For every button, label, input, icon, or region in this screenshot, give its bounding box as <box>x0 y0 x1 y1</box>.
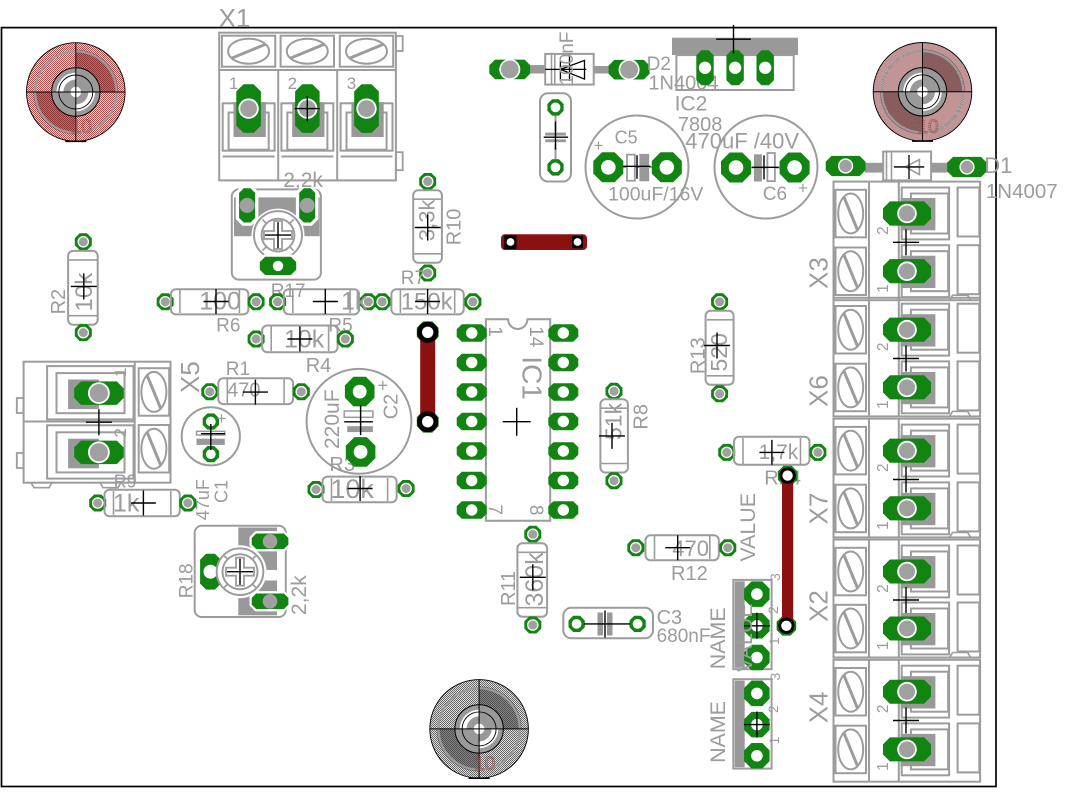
svg-text:2: 2 <box>875 226 892 235</box>
IC1 pin 11 (right) <box>548 413 578 430</box>
capacitor C7 (100nF) <box>540 93 571 181</box>
R17 value label 2,2k <box>283 169 323 192</box>
X3 pin numbers <box>875 226 892 292</box>
svg-text:X1: X1 <box>219 3 251 33</box>
D1 labels <box>984 153 1057 203</box>
svg-text:R18: R18 <box>177 563 198 598</box>
svg-text:2,2k: 2,2k <box>283 169 323 192</box>
svg-text:X4: X4 <box>804 691 834 723</box>
svg-text:100uF/16V: 100uF/16V <box>608 184 703 206</box>
svg-text:1: 1 <box>766 737 782 745</box>
X5 pin numbers <box>111 368 130 438</box>
R5 name label <box>328 316 352 337</box>
R11 name label <box>498 571 520 606</box>
capacitor C3 (680nF) <box>563 608 653 639</box>
R6 name label <box>216 316 240 337</box>
resistor R2 (10k) <box>68 233 98 341</box>
svg-text:X7: X7 <box>804 493 834 525</box>
svg-text:1: 1 <box>875 641 892 650</box>
svg-text:+: + <box>798 179 808 198</box>
SV1 pin numbers <box>765 573 783 645</box>
X4 pad 2 <box>883 680 931 704</box>
svg-text:X2: X2 <box>804 590 834 622</box>
mounting hole bottom <box>430 680 529 779</box>
svg-text:100nF: 100nF <box>557 32 578 86</box>
X1 pad 1 <box>236 84 261 133</box>
R12 name label <box>671 563 708 585</box>
svg-text:1k: 1k <box>341 288 368 316</box>
svg-text:2: 2 <box>875 342 892 351</box>
X6 pad 2 <box>883 318 931 342</box>
D2 labels <box>647 54 719 94</box>
svg-text:R12: R12 <box>671 563 708 585</box>
mounting hole top-left <box>27 43 126 142</box>
diode D1 (1N4007) <box>826 152 987 181</box>
svg-text:R6: R6 <box>216 316 240 337</box>
R1 name label <box>226 359 250 380</box>
X3 pad 1 <box>883 229 931 283</box>
svg-text:C1: C1 <box>211 480 231 503</box>
IC1 pin 4 (left) <box>457 413 487 430</box>
svg-text:C5: C5 <box>615 128 638 148</box>
R3 name label <box>329 454 355 476</box>
svg-text:680nF: 680nF <box>657 626 711 647</box>
trimmer R18 (2,2k) <box>195 526 291 617</box>
capacitor C6 (470uF/40V) <box>715 116 818 219</box>
X6 name label <box>804 375 834 407</box>
connector X4 <box>834 660 981 782</box>
IC1 pin 6 (left) <box>457 472 487 489</box>
R7 name label <box>401 268 425 289</box>
svg-text:2: 2 <box>765 705 781 713</box>
X4 name label <box>804 691 834 723</box>
svg-text:R1: R1 <box>226 359 250 380</box>
connector X3 <box>834 182 981 301</box>
X1 pin numbers <box>229 74 356 93</box>
svg-text:2: 2 <box>288 74 297 93</box>
resistor R8 (51k) <box>599 383 628 489</box>
SV2 value label <box>733 603 757 672</box>
svg-text:+: + <box>217 409 227 428</box>
svg-text:R4: R4 <box>306 355 332 377</box>
wire trace T2 (left of IC1) <box>417 321 439 432</box>
R18 name label <box>177 563 198 598</box>
svg-text:520: 520 <box>706 333 732 371</box>
svg-text:1N4007: 1N4007 <box>986 180 1058 203</box>
SV1 value label <box>736 493 760 562</box>
resistor R9 (1k) <box>89 490 196 518</box>
X5 name label <box>175 361 205 393</box>
resistor R10 (3,3k) <box>413 173 442 282</box>
svg-text:3: 3 <box>767 673 783 681</box>
svg-text:14: 14 <box>525 326 546 348</box>
svg-text:470uF /40V: 470uF /40V <box>685 128 799 153</box>
R8 name label <box>630 404 652 430</box>
C1 labels <box>193 479 232 520</box>
IC1 pin 7 (left) <box>457 501 487 519</box>
svg-text:X6: X6 <box>804 375 834 407</box>
IC1 pin 2 (left) <box>457 354 487 371</box>
svg-text:8: 8 <box>525 505 546 516</box>
resistor R1 (470) <box>201 378 309 404</box>
X3 name label <box>804 257 834 289</box>
wire trace T1 (top jumper) <box>501 234 587 250</box>
connector X7 <box>834 419 981 538</box>
header SV2 <box>733 679 771 768</box>
X2 pin numbers <box>875 584 892 650</box>
X1 name label <box>219 3 251 33</box>
svg-text:R13: R13 <box>688 337 710 374</box>
svg-text:+: + <box>378 376 389 396</box>
X5 pad 2 <box>74 409 123 464</box>
svg-text:2,2k: 2,2k <box>288 575 311 615</box>
IC2 labels <box>675 92 800 153</box>
svg-text:1: 1 <box>875 284 892 293</box>
connector X2 <box>834 540 981 658</box>
svg-text:IC2: IC2 <box>675 92 708 115</box>
IC1 pin 10 (right) <box>548 442 578 460</box>
svg-text:C6: C6 <box>763 184 787 205</box>
resistor R5 (1k) <box>269 288 377 316</box>
svg-text:VALUE: VALUE <box>736 493 760 562</box>
X7 pad 1 <box>883 467 931 521</box>
svg-text:2: 2 <box>875 704 892 713</box>
svg-text:1: 1 <box>111 368 130 377</box>
X2 name label <box>804 590 834 622</box>
svg-text:R2: R2 <box>48 289 70 315</box>
svg-text:R7: R7 <box>401 268 425 289</box>
C2 labels <box>321 389 403 449</box>
svg-text:X3: X3 <box>804 257 834 289</box>
svg-text:7: 7 <box>484 504 505 515</box>
IC1 pin 12 (right) <box>548 383 578 401</box>
resistor R4 (10k) <box>248 326 354 354</box>
svg-text:R11: R11 <box>498 571 520 606</box>
svg-text:D1: D1 <box>984 153 1012 178</box>
resistor R3 (10k) <box>308 474 415 504</box>
X7 pad 2 <box>883 439 931 463</box>
resistor R6 (100) <box>157 288 265 316</box>
svg-text:2: 2 <box>765 606 781 614</box>
X3 pad 2 <box>883 201 931 225</box>
IC1 pin 3 (left) <box>457 383 487 401</box>
svg-text:2: 2 <box>875 463 892 472</box>
svg-text:R8: R8 <box>630 404 652 430</box>
svg-text:2: 2 <box>111 428 130 437</box>
svg-text:X5: X5 <box>175 361 205 393</box>
R10 name label <box>444 209 466 246</box>
svg-text:1: 1 <box>875 400 892 409</box>
svg-text:+: + <box>594 136 604 155</box>
svg-text:1: 1 <box>875 521 892 530</box>
connector X1 <box>219 33 402 181</box>
IC1 pin 8 (right) <box>548 501 578 519</box>
trimmer R17 (2,2k) <box>232 185 321 279</box>
X7 pin numbers <box>875 463 892 530</box>
svg-text:1: 1 <box>875 762 892 771</box>
mounting hole top-right <box>873 43 972 142</box>
svg-text:220uF: 220uF <box>321 389 344 449</box>
R14 name label <box>764 467 801 489</box>
C5 labels <box>608 128 703 206</box>
svg-text:1: 1 <box>484 326 505 337</box>
X4 pin numbers <box>875 704 892 770</box>
X2 pad 1 <box>883 587 931 641</box>
svg-text:360k: 360k <box>521 552 549 607</box>
capacitor C5 (100uF/16V) <box>586 116 689 219</box>
svg-text:IC1: IC1 <box>517 356 548 400</box>
IC1 name label <box>517 356 548 400</box>
X5 pad 1 <box>74 381 123 405</box>
X4 pad 1 <box>883 708 931 762</box>
SV2 pin numbers <box>765 673 783 745</box>
wire trace T3 (R14 to SV1) <box>777 466 798 636</box>
IC IC2 (7808) <box>672 25 798 90</box>
svg-text:3: 3 <box>347 74 356 93</box>
svg-text:3: 3 <box>767 573 783 581</box>
X6 pin numbers <box>875 342 892 408</box>
svg-text:R9: R9 <box>114 472 137 492</box>
SV1 name label <box>706 607 730 669</box>
resistor R7 (150k) <box>374 289 482 316</box>
capacitor C2 (220uF) <box>307 369 412 474</box>
resistor R11 (360k) <box>517 526 549 634</box>
svg-text:NAME: NAME <box>706 607 730 669</box>
X6 pad 1 <box>883 346 931 400</box>
svg-text:51k: 51k <box>601 402 627 440</box>
IC1 pin number texts <box>484 326 546 515</box>
svg-text:1: 1 <box>229 74 238 93</box>
diode D2 (1N4004) <box>489 54 649 85</box>
X7 name label <box>804 493 834 525</box>
resistor R12 (470) <box>627 535 736 561</box>
R2 name label <box>48 289 70 315</box>
svg-text:2: 2 <box>875 584 892 593</box>
SV2 name label <box>706 701 730 763</box>
svg-text:NAME: NAME <box>706 701 730 763</box>
connector X6 <box>834 298 981 417</box>
R4 name label <box>306 355 332 377</box>
C3 labels <box>657 607 711 647</box>
C7 value label 100nF <box>557 32 578 86</box>
IC1 pin 9 (right) <box>548 472 578 489</box>
IC1 pin 5 (left) <box>457 442 487 460</box>
X1 pad 3 <box>354 84 379 133</box>
svg-text:C2: C2 <box>381 394 403 420</box>
IC IC1 (14-pin DIP) <box>486 319 550 520</box>
capacitor C1 (47uF) <box>182 407 240 465</box>
X1 pad 2 <box>295 84 320 133</box>
X2 pad 2 <box>883 560 931 584</box>
svg-text:1: 1 <box>766 637 782 645</box>
resistor R13 (520) <box>704 293 734 402</box>
svg-text:R10: R10 <box>444 209 466 246</box>
R18 value label 2,2k <box>288 575 311 615</box>
IC1 pin 13 (right) <box>548 354 578 371</box>
svg-text:VALUE: VALUE <box>733 603 757 672</box>
R9 name label <box>114 472 137 492</box>
C6 name label <box>763 184 787 205</box>
resistor R14 (1,7k) <box>718 437 826 465</box>
R17 name label <box>271 281 306 302</box>
header SV1 <box>733 580 771 670</box>
R13 name label <box>688 337 710 374</box>
connector X5 <box>17 362 171 488</box>
IC1 pin 1 (left) <box>457 324 487 342</box>
IC1 pin 14 (right) <box>548 324 578 342</box>
